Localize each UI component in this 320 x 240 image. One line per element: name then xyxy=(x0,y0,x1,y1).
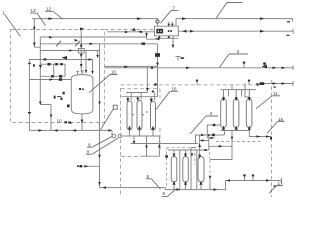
bottom column B2 xyxy=(183,157,189,183)
arrow left y130.4 x55.5 xyxy=(54,129,58,132)
stub x97.5 xyxy=(96,55,99,58)
arrow compressor out x184 xyxy=(182,30,187,33)
valve y59.5 x45 xyxy=(44,58,46,60)
svg-text:8: 8 xyxy=(87,150,90,155)
marks at dash crossing x67 y121.8 xyxy=(65,121,67,123)
arrow right stub y138 xyxy=(211,137,215,139)
lollipop dots x244.5 x253 xyxy=(243,174,245,176)
wire tank feed line A y80.3 xyxy=(29,79,71,81)
wire middle risers top xyxy=(128,93,155,101)
leader label15 xyxy=(267,122,285,134)
svg-text:5: 5 xyxy=(147,174,150,179)
pump circle P2 xyxy=(118,134,122,138)
arrow on top line2 x184 xyxy=(182,17,187,20)
wire lollipops bottom right xyxy=(245,176,254,181)
arrow right y136.5 x258 xyxy=(257,135,261,138)
wire x208.8 xyxy=(208,135,210,150)
wire vert x40.4 lower elbow xyxy=(40,105,51,131)
arrow left on y31 x139.5 xyxy=(138,31,143,34)
bottom group bottom arrows xyxy=(173,181,176,185)
wire vert x53.75 xyxy=(53,64,55,76)
arrow up x51 y114.5 xyxy=(50,113,53,116)
leader label14 box xyxy=(101,109,114,130)
arrow down x147.3 y90 xyxy=(146,88,149,91)
arrow left y180.5 x228 xyxy=(226,179,230,182)
valve tick y43.8 x77.5 xyxy=(75,41,80,46)
arrow line3 x262? xyxy=(260,30,265,33)
mark under line4 x274.5 xyxy=(274,87,276,88)
middle column M3 xyxy=(151,102,156,131)
nozzle square tank left xyxy=(67,105,70,108)
leader label12 xyxy=(45,11,63,19)
valve y76 x52.5 xyxy=(51,75,54,77)
arrow down dashed x210 y177.5 xyxy=(209,176,212,179)
leader label11 xyxy=(256,96,280,109)
arrow on top line1 x50 xyxy=(49,17,54,20)
right column R3 xyxy=(246,99,252,128)
wire lollipop x244 line3 xyxy=(243,63,245,68)
wire vert x99.5 long xyxy=(99,44,101,188)
wire y140.5 short xyxy=(200,140,209,142)
blob riser-dash junction x155 y83.8 xyxy=(154,83,156,85)
tick x28.5 y112.7 xyxy=(28,112,31,113)
valve on line4 x262 xyxy=(260,82,264,85)
leader label3 xyxy=(220,54,249,67)
arrow down tank drain x82 y121.5 xyxy=(81,120,84,124)
leader label8 xyxy=(86,138,118,154)
middle column M1 xyxy=(127,101,132,130)
arrow down x86 y71 xyxy=(85,70,88,73)
svg-text:9: 9 xyxy=(88,142,91,147)
wire downcomer x179.8 xyxy=(179,150,181,190)
dashed line y84.8 xyxy=(121,84,257,86)
valve y64 x56.5 xyxy=(55,63,58,65)
bottom group top arrows xyxy=(173,154,176,158)
end mark dots line2 xyxy=(287,21,290,22)
wire right group top drops xyxy=(224,90,250,98)
wire vent tick near valve x178 xyxy=(176,57,181,61)
leader label1 xyxy=(5,15,21,37)
wire right group bottom risers xyxy=(224,128,250,131)
arrow down x40.4 y70 xyxy=(39,65,42,69)
arrow on top line1 x139 xyxy=(137,17,142,20)
arrow on top line2 x262 xyxy=(260,17,265,20)
valve y80.3 x60.5 xyxy=(59,78,62,81)
bottom column B1 xyxy=(171,157,177,183)
arrow down x81 y65.5 xyxy=(80,64,83,67)
tank top stubs xyxy=(76,70,86,75)
lollipop dot x244 xyxy=(243,62,245,64)
junction dot x208.8 xyxy=(208,134,210,136)
wire right group top manifold xyxy=(221,89,256,91)
arrow right dash y84.8 x258 xyxy=(257,84,261,86)
dots inside tank label6 xyxy=(79,88,81,90)
leader lines xyxy=(5,3,285,197)
vent dots x181 xyxy=(181,57,185,59)
wire compressor suction stubs xyxy=(169,22,173,27)
middle group bottom arrows xyxy=(128,125,131,129)
middle column M2 xyxy=(137,101,142,131)
wire left vertical x28.5 xyxy=(28,60,30,131)
blob on dash x271 y138 xyxy=(270,137,272,140)
svg-text:7: 7 xyxy=(173,6,176,11)
leader label6 xyxy=(162,188,177,196)
arrow down x81 y55.5 xyxy=(80,54,83,57)
wire y146.3 xyxy=(209,145,232,147)
wire Lmid y135 xyxy=(195,131,224,136)
arrow right y80.3 x51 xyxy=(50,78,54,81)
marks manifold left x153 y91.5 xyxy=(152,91,154,93)
wire line y156.2 xyxy=(140,155,159,157)
diag arrow x76 y40 xyxy=(75,39,79,42)
right column R1 xyxy=(221,99,227,128)
svg-text:15: 15 xyxy=(278,117,284,122)
arrow down x99.5 y157 xyxy=(98,155,101,158)
wire line under box xyxy=(155,36,178,39)
arrow down x40.4 y103 xyxy=(39,102,42,105)
arrow line3 x274 xyxy=(273,67,277,70)
up triangle on dashes x134 xyxy=(132,28,136,31)
wire tank drain xyxy=(81,114,83,130)
svg-text:10: 10 xyxy=(57,119,63,124)
arrow y67.8 x187.5 xyxy=(186,67,190,70)
compressor circle xyxy=(156,20,159,23)
middle drops arrows xyxy=(133,141,136,144)
instrument x54.7 y97 xyxy=(54,96,56,99)
wire right group left stub xyxy=(207,125,220,138)
wire vert x92.5 to tank xyxy=(92,60,94,75)
wire line3 product y67 xyxy=(104,66,293,71)
wire stub x97.5 xyxy=(97,51,99,58)
valve y64 x49 xyxy=(48,63,51,66)
arrows and valve marks xyxy=(28,17,290,191)
arrow right y146.3 x220.3 xyxy=(219,145,223,148)
right group top arrows xyxy=(222,97,225,101)
svg-text:4: 4 xyxy=(210,111,213,116)
arrow right y136.5 x267.5 xyxy=(266,135,270,138)
leader label13 xyxy=(30,13,46,26)
wire manifold y59 xyxy=(29,59,92,61)
wire box drain x173 xyxy=(172,36,174,48)
arrows under box xyxy=(158,35,161,38)
svg-text:17: 17 xyxy=(278,181,284,186)
wire line y66.4 from dashed border xyxy=(104,65,157,67)
valve blob y43.8 x143.5 xyxy=(142,43,146,45)
leader label16 xyxy=(89,75,118,93)
arrow right y50 x51 xyxy=(69,49,73,52)
valve y59 x64.5 xyxy=(62,56,67,60)
arrow down x232 y139 xyxy=(231,137,234,140)
svg-text:13: 13 xyxy=(31,8,37,13)
small label box x115.5 y107.5 xyxy=(113,105,117,109)
leader label17 xyxy=(269,186,283,194)
arrow up x33.75 y27.5 xyxy=(33,25,36,28)
down arrow x192 y155 xyxy=(191,153,194,156)
leader label9 xyxy=(87,136,113,147)
wire x210 down xyxy=(209,178,211,190)
leader label4 xyxy=(190,116,218,134)
arrow right bottom line x40 xyxy=(39,129,43,132)
arrow line4 x274 xyxy=(273,82,277,85)
wire stub y166 xyxy=(78,165,100,167)
arrow down x146 y34 xyxy=(145,33,148,36)
wire line out of compressor right xyxy=(178,29,293,34)
svg-text:16: 16 xyxy=(111,70,117,75)
arrow right y31.8 x126.5 xyxy=(125,31,129,34)
compressor internals white dots xyxy=(158,30,159,32)
arrow on dashes x82 xyxy=(80,27,84,30)
arrow left y140.5 x201.5 xyxy=(200,139,204,142)
right group bottom arrows xyxy=(222,126,225,130)
dot y150 x205.5 xyxy=(204,149,206,151)
valve blob on dash x166.5 y156.5 xyxy=(165,155,168,158)
arrow down x92.5 y71 xyxy=(91,71,94,74)
wire bottom group top risers xyxy=(174,150,186,156)
wire line y39 xyxy=(147,32,159,39)
wire vert x81 through small box xyxy=(80,29,82,73)
arrow down x99.5 y103 xyxy=(98,102,101,105)
wire compressor discharge riser xyxy=(175,19,177,27)
up arrow B3 feed x199.6 y145.3 xyxy=(198,144,201,147)
right column R2 xyxy=(233,99,239,128)
leader label16b xyxy=(156,91,178,109)
flanged valve x157 y55 xyxy=(155,53,160,57)
marks left of tank xyxy=(63,92,65,95)
svg-text:12: 12 xyxy=(46,7,52,12)
compressor box U7 xyxy=(155,26,179,36)
marks under line x275.5 xyxy=(274,185,277,186)
dashed enclosure middle bottom xyxy=(121,89,160,157)
lollipop dot x249 dash xyxy=(248,80,250,82)
tick x28.5 y63.5 xyxy=(28,63,30,64)
tiny labels xyxy=(3,6,284,196)
wire R bottom extension xyxy=(249,131,271,137)
wire elbow to pumps xyxy=(111,130,113,136)
leader label7 xyxy=(161,11,179,24)
wire B top manifold y150 xyxy=(168,149,209,151)
wire y159.5 xyxy=(210,159,232,161)
arrow right y180.5 x267.5 xyxy=(266,179,270,182)
wire manifold y64 xyxy=(40,63,65,65)
arrow right bottomline x215 xyxy=(214,188,218,191)
lollipop dot x197 dash xyxy=(196,80,198,82)
wire R bottom manifold xyxy=(221,130,250,132)
tick x34 y65.5 xyxy=(33,64,35,66)
dashed purge line top xyxy=(104,29,154,31)
wire elbow x245 to R3 xyxy=(245,84,249,98)
arrow down x157.5 y64 xyxy=(156,63,159,66)
valve mark right stub x214.5 xyxy=(213,124,216,126)
wire right feed x232 xyxy=(231,85,233,90)
valve tick y43.8 x58.5 xyxy=(56,41,61,46)
wire lollipop x197 dash xyxy=(196,81,198,85)
arrow down x99.5 y184 xyxy=(98,182,101,185)
valve triangle x191 xyxy=(190,30,194,33)
wire middle bottom stubs xyxy=(130,131,154,137)
wire middle top manifold y92.5 xyxy=(126,67,147,93)
wire left vertical x40.4 xyxy=(34,19,40,105)
arrow line4 x283 xyxy=(282,82,286,85)
arrow right y37 x50.5 xyxy=(49,36,53,39)
arrow down x40.4 y53 xyxy=(33,43,36,47)
wire top line2 right xyxy=(176,19,293,22)
wire jog x191 xyxy=(191,148,196,190)
wire bottom line y189.6 xyxy=(165,178,281,190)
wire line4 y83.5 solid right part xyxy=(256,81,293,86)
svg-text:16: 16 xyxy=(172,87,178,92)
pump circle P1 xyxy=(112,134,116,138)
valve on y166 x80.5 xyxy=(80,165,82,167)
wire vert x86 to tank xyxy=(85,51,87,74)
arrows on Lmid x202.5 xyxy=(201,134,205,137)
small box filter xyxy=(78,49,84,54)
wire top line1 xyxy=(32,18,158,20)
arrow left bottom-left line x104 xyxy=(102,186,106,189)
wire vert x157 feed middle group xyxy=(157,44,159,97)
leader label2 xyxy=(216,3,243,19)
wire line y36.5 xyxy=(40,32,154,37)
wire capsule side stubs xyxy=(132,112,148,115)
wire vert x65 xyxy=(64,64,66,76)
arrow y59 x90 xyxy=(89,58,93,61)
valve y64 x61.5 xyxy=(60,63,62,65)
dot y67.8 x152 xyxy=(151,67,153,69)
arrow right y43.8 x91 xyxy=(90,43,94,46)
svg-text:11: 11 xyxy=(273,91,278,96)
arrow right y130.4 x110 xyxy=(108,129,112,132)
dashed enclosure bottom group xyxy=(167,142,263,187)
wire pump discharge line y136 xyxy=(123,135,160,137)
wire line y43.8 xyxy=(40,43,157,45)
wire vert B3 feed xyxy=(199,135,201,158)
arrow down x173 y46 xyxy=(172,45,175,48)
wire circle stem xyxy=(157,23,159,26)
compressor internals xyxy=(156,29,163,34)
wire bottom line y130.4 xyxy=(29,129,112,131)
valve on line3 x264.5 xyxy=(262,65,267,69)
svg-text:3: 3 xyxy=(237,49,240,54)
arrow line3 x283 xyxy=(282,67,286,70)
triangle mark x70.5 y122.3 xyxy=(69,121,72,124)
wire vert x196.8 xyxy=(196,150,198,190)
wire right group drop x232 xyxy=(231,131,233,160)
valve y76 x60.5 xyxy=(59,75,62,78)
tank V1 xyxy=(71,75,93,114)
mark on Lmid x213.5 xyxy=(212,134,215,137)
leader label5a xyxy=(146,179,161,189)
bottom column B3 xyxy=(198,157,204,183)
arrow right bottomline x178 xyxy=(177,188,181,191)
wire lollipop x249 dash xyxy=(248,81,250,85)
wire middle top manifold y96.7 xyxy=(121,96,157,98)
arrow left on y39 x157.5 xyxy=(156,38,160,41)
wire drops y136 to y143.5 xyxy=(134,136,159,156)
arrows into box top xyxy=(168,24,171,27)
arrow down x81.2 y46.5 xyxy=(80,45,83,48)
wire manifold y76 xyxy=(40,75,65,77)
arrow left bottom line x74 xyxy=(72,129,76,132)
svg-text:6: 6 xyxy=(163,191,166,196)
svg-text:1: 1 xyxy=(3,11,6,16)
dashed battery limit box xyxy=(11,30,105,123)
dots under line2 end xyxy=(287,35,290,36)
wire header y143.5 xyxy=(131,143,198,145)
arrow right y66.4 x125.5 xyxy=(124,66,128,69)
middle group top arrows xyxy=(126,98,129,102)
wire bottom group bottom stubs xyxy=(174,182,201,189)
dashed right border x271.5 xyxy=(271,80,273,197)
wire connector x195.5 xyxy=(195,135,197,144)
wire bottom line left y187.6 xyxy=(100,188,166,190)
dashed vertical x124 xyxy=(120,88,122,196)
wire manifold y50 xyxy=(40,50,99,52)
arrow right y166.3 x86 xyxy=(85,165,89,168)
